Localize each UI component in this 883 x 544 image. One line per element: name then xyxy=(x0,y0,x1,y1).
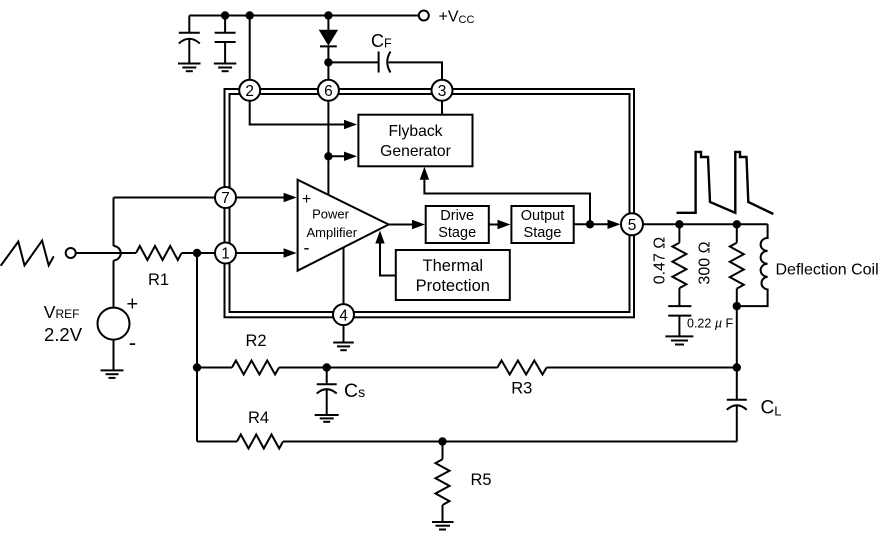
wire (coil node down to CL) xyxy=(736,306,738,400)
svg-text:Amplifier: Amplifier xyxy=(307,225,358,240)
resistor 300 ohm xyxy=(730,224,744,306)
pin 4 xyxy=(333,304,354,325)
wire (feedback from output node up into flyback generator) xyxy=(424,178,590,224)
block Drive Stage xyxy=(426,206,489,243)
wire (amplifier output to drive stage) xyxy=(389,224,414,226)
junction (rail to pin 2) xyxy=(246,11,254,19)
resistor R1 xyxy=(136,246,182,260)
svg-text:Generator: Generator xyxy=(380,143,451,160)
svg-text:R4: R4 xyxy=(248,409,269,427)
svg-text:R5: R5 xyxy=(470,471,491,489)
junction (diode cathode node) xyxy=(324,58,332,66)
capacitor CL xyxy=(727,400,747,442)
wire (R2 row left) xyxy=(197,367,232,369)
wire (output stage to pin 5) xyxy=(574,223,608,225)
resistor 0.47 ohm xyxy=(672,224,686,288)
ground (under C2) xyxy=(214,64,237,72)
wire (node to flyback generator input) xyxy=(328,155,345,157)
capacitor CF xyxy=(328,52,442,91)
wire (drive stage to output stage) xyxy=(489,224,499,226)
wire (pin 6 down to amplifier) xyxy=(327,90,329,195)
capacitor C1 (electrolytic filter cap) xyxy=(179,16,200,64)
svg-text:Thermal: Thermal xyxy=(423,257,484,275)
diode D1 xyxy=(320,16,338,91)
IC package outline (double border) xyxy=(225,89,635,317)
svg-text:R1: R1 xyxy=(148,271,169,289)
wire (feedback node down left rail) xyxy=(196,253,198,442)
pin 5 xyxy=(621,213,643,235)
svg-text:0.22 µ F: 0.22 µ F xyxy=(687,317,733,331)
junction (R3 / CL node) xyxy=(733,363,741,371)
svg-text:+: + xyxy=(302,191,311,208)
ground (CS) xyxy=(315,415,339,422)
pin 1 xyxy=(215,243,236,264)
capacitor CS xyxy=(317,368,337,416)
ground (pin 4) xyxy=(333,343,354,351)
junction (300 ohm / coil branch) xyxy=(733,220,741,228)
svg-text:3: 3 xyxy=(438,83,447,100)
wire (pin 4 to ground) xyxy=(343,315,345,343)
wire (pin 3 to flyback generator top) xyxy=(441,90,443,114)
block Output Stage xyxy=(511,206,573,243)
svg-text:0.47 Ω: 0.47 Ω xyxy=(652,237,669,285)
wire (R4 to CL bottom) xyxy=(283,441,737,443)
svg-text:Cs: Cs xyxy=(344,380,365,402)
junction (rail to C2) xyxy=(221,11,229,19)
wire (amplifier to pin 4) xyxy=(343,248,345,315)
svg-text:-: - xyxy=(129,330,136,355)
wire (rail down to pin 2) xyxy=(249,16,251,91)
wire (R5 top lead) xyxy=(442,442,444,460)
block Flyback Generator xyxy=(358,115,472,167)
wire +Vcc top rail xyxy=(189,15,418,17)
source VREF 2.2V xyxy=(98,294,139,356)
svg-text:R2: R2 xyxy=(245,332,266,350)
wire (R3 to CL node) xyxy=(547,367,737,369)
wire (VREF branch vertical with hop over input wire) xyxy=(114,198,121,308)
wire (input terminal to R1) xyxy=(76,252,136,254)
junction (Cs node) xyxy=(323,363,331,371)
svg-text:Drive: Drive xyxy=(440,208,474,224)
ground (VREF) xyxy=(101,370,124,378)
pin 3 xyxy=(432,80,453,101)
wire (VREF to ground) xyxy=(113,340,115,371)
ground (R5) xyxy=(432,522,454,530)
pin 7 xyxy=(215,187,236,208)
svg-text:Stage: Stage xyxy=(524,225,562,241)
junction (feedback rail / R2 row) xyxy=(193,363,201,371)
svg-text:Power: Power xyxy=(312,207,350,222)
svg-text:Stage: Stage xyxy=(438,225,476,241)
wire (R1 to pin 1) xyxy=(182,252,285,254)
junction (coil bottom node) xyxy=(733,302,741,310)
wire (pin 2 to flyback generator input) xyxy=(250,90,345,124)
pin 6 xyxy=(318,80,339,101)
terminal +Vcc xyxy=(419,11,429,21)
inductor deflection coil xyxy=(737,224,768,306)
junction (pin 6 branch) xyxy=(324,152,332,160)
wire (R4 row) xyxy=(197,441,237,443)
svg-text:Deflection Coil: Deflection Coil xyxy=(776,262,879,279)
terminal input xyxy=(66,248,76,258)
svg-text:1: 1 xyxy=(221,246,230,263)
waveform output flyback pulses xyxy=(677,152,774,214)
resistor R2 xyxy=(232,361,279,375)
block Thermal Protection xyxy=(396,250,510,300)
svg-text:-: - xyxy=(304,238,310,258)
svg-text:4: 4 xyxy=(339,307,348,324)
svg-text:Output: Output xyxy=(521,208,565,224)
junction (R1 / feedback node) xyxy=(193,249,201,257)
junction (output node) xyxy=(586,220,594,228)
capacitor C2 (bypass cap) xyxy=(215,16,236,64)
svg-text:2.2V: 2.2V xyxy=(44,324,83,345)
pin 2 xyxy=(239,80,260,101)
resistor R4 xyxy=(237,435,283,449)
resistor R3 xyxy=(497,361,546,375)
ground (under C1) xyxy=(178,64,201,72)
svg-text:+: + xyxy=(127,294,139,316)
op-amp U1 power amplifier xyxy=(298,180,389,271)
svg-text:5: 5 xyxy=(628,217,637,234)
wire (pin 5 to load network) xyxy=(632,223,768,225)
svg-text:Flyback: Flyback xyxy=(388,123,442,140)
svg-text:2: 2 xyxy=(245,83,254,100)
svg-text:R3: R3 xyxy=(511,380,532,398)
svg-text:Protection: Protection xyxy=(416,277,490,295)
svg-text:7: 7 xyxy=(221,190,230,207)
wire (R5 to ground) xyxy=(442,505,444,522)
wire (thermal protection to amplifier) xyxy=(380,243,396,276)
wire (R2 to R3) xyxy=(279,367,497,369)
waveform sawtooth input symbol xyxy=(1,241,54,266)
svg-text:300 Ω: 300 Ω xyxy=(697,241,714,284)
junction (0.47 ohm branch) xyxy=(675,220,683,228)
ground (0.22uF) xyxy=(665,336,693,344)
wire (VREF branch to pin 7) xyxy=(114,197,286,199)
svg-text:6: 6 xyxy=(324,83,333,100)
junction (rail to diode) xyxy=(324,11,332,19)
junction (R5 node) xyxy=(438,437,446,445)
capacitor 0.22uF xyxy=(668,288,691,336)
resistor R5 xyxy=(436,459,450,505)
